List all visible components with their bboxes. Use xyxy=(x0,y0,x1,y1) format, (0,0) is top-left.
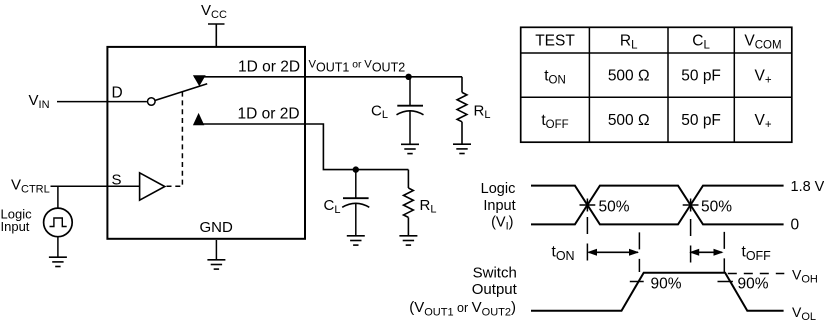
junction node 2 xyxy=(353,166,359,172)
dashed control line xyxy=(167,92,183,186)
svg-text:TEST: TEST xyxy=(535,33,575,50)
svg-text:Input: Input xyxy=(483,198,515,214)
resistor RL1 xyxy=(457,77,467,144)
throw contact 2 (up triangle) xyxy=(193,113,204,125)
ground under RL2 xyxy=(399,236,417,245)
ground under GND pin xyxy=(207,260,225,269)
wire VCTRL to buffer xyxy=(51,185,140,187)
svg-text:500 Ω: 500 Ω xyxy=(608,112,650,129)
crossing mark 1 (plus) xyxy=(580,199,596,212)
crossing mark 2 (plus) xyxy=(683,199,699,212)
ground under RL1 xyxy=(453,144,471,153)
svg-text:Output: Output xyxy=(472,281,518,298)
pulse symbol xyxy=(50,218,67,227)
svg-text:Input: Input xyxy=(1,219,30,234)
throw contact 1 (down triangle) xyxy=(193,75,206,86)
switch pole contact (open circle) xyxy=(148,98,156,106)
DUT box xyxy=(107,47,305,239)
svg-text:Logic: Logic xyxy=(481,181,516,197)
svg-text:1D or 2D: 1D or 2D xyxy=(238,58,300,75)
wire source stem xyxy=(57,186,59,208)
dashed line at crossing 2 xyxy=(690,219,692,265)
logic input waveform line B xyxy=(531,186,784,225)
wire VIN to switch pole xyxy=(57,101,147,103)
table grid lines xyxy=(521,27,792,142)
buffer U1 (triangle) xyxy=(140,173,165,200)
svg-text:Switch: Switch xyxy=(473,264,517,281)
90% tick on fall xyxy=(718,281,733,283)
arrow tON xyxy=(587,249,639,256)
dashed line at output fall xyxy=(723,232,725,272)
90% tick on rise xyxy=(630,281,644,283)
pulse source (Logic Input) xyxy=(44,208,73,237)
svg-text:50 pF: 50 pF xyxy=(681,112,721,129)
power VCC symbol xyxy=(208,24,225,46)
svg-text:1D or 2D: 1D or 2D xyxy=(238,106,300,123)
svg-text:50 pF: 50 pF xyxy=(681,68,721,85)
switch blade xyxy=(155,84,207,101)
svg-text:500 Ω: 500 Ω xyxy=(608,68,650,85)
dashed line at crossing 1 xyxy=(586,217,588,265)
svg-text:0: 0 xyxy=(791,217,800,234)
switch output waveform xyxy=(531,273,784,311)
capacitor CL2 xyxy=(342,170,369,236)
svg-text:50%: 50% xyxy=(599,199,630,216)
dashed line at output rise xyxy=(638,232,640,272)
svg-text:90%: 90% xyxy=(651,276,682,293)
svg-text:50%: 50% xyxy=(701,199,732,216)
dashed VOH level xyxy=(728,273,785,275)
svg-text:90%: 90% xyxy=(738,276,769,293)
svg-text:GND: GND xyxy=(200,219,234,236)
resistor RL2 xyxy=(404,170,414,236)
wire GND stub xyxy=(215,240,217,260)
wire output 2 xyxy=(194,124,408,170)
ground under CL1 xyxy=(401,144,419,153)
junction node 1 xyxy=(405,74,411,80)
capacitor CL1 xyxy=(397,77,424,145)
arrow tOFF xyxy=(689,249,723,256)
ground under source xyxy=(49,257,67,266)
svg-text:1.8 V: 1.8 V xyxy=(791,179,824,195)
svg-text:D: D xyxy=(112,85,123,102)
svg-text:(VI): (VI) xyxy=(491,215,513,233)
ground under CL2 xyxy=(347,236,365,245)
table frame xyxy=(521,27,792,142)
logic input waveform line A xyxy=(531,186,784,225)
wire source to ground xyxy=(57,237,59,258)
wire output 1 xyxy=(194,76,462,78)
